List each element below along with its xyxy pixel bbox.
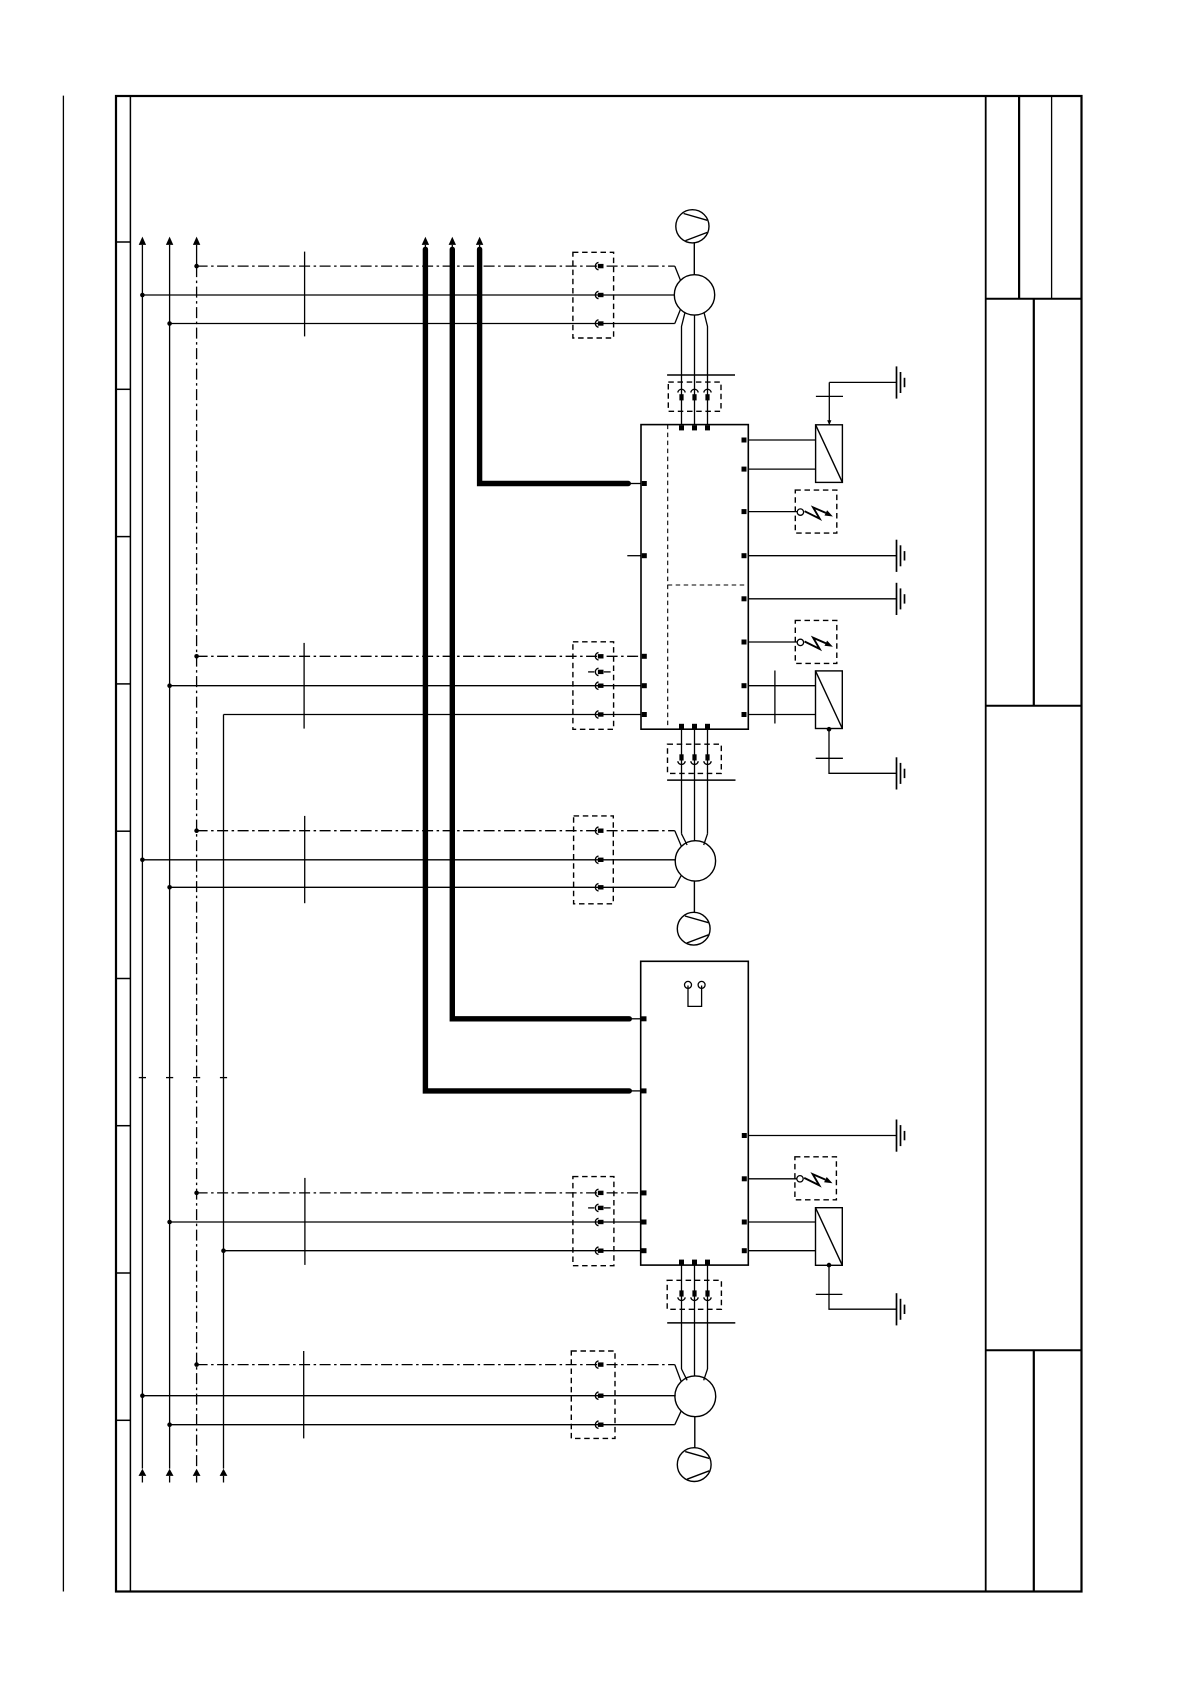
bus line L1 (139, 237, 147, 1483)
terminal X4:1 (678, 754, 685, 764)
ground PE2 (897, 540, 905, 572)
junction bus L2 (167, 1422, 172, 1427)
terminal X6:1 (595, 1189, 603, 1196)
drive A1 pins: bottom U V W (679, 724, 710, 729)
junction control bus to X6 (194, 1191, 199, 1196)
filter Z2 (816, 671, 843, 729)
wire bus L2 to drive A2 (170, 1221, 641, 1223)
terminal X1:3 (595, 320, 603, 327)
terminal X3:2 (stub) (588, 668, 611, 675)
wire (dash-dot) control bus to drive A1 (197, 655, 641, 657)
wire bus L1 to motor M2 (142, 859, 676, 861)
ground lead of filter Z1 with arrow (816, 382, 897, 425)
wire drive A1 to surge arrester F11 (748, 511, 797, 513)
terminal block X2 (dashed, motor side of A1) (668, 382, 721, 411)
wire drive A1 to resistor unit Z2 (top) (748, 685, 815, 687)
junction control bus to X8 (194, 1362, 199, 1367)
drive A1 internal section (dashed) (668, 425, 749, 730)
wire (dash-dot) control to motor M2 (197, 831, 682, 847)
terminal X1:1 (595, 262, 603, 269)
wire PE bus to drive A2 (224, 1250, 641, 1252)
drive A1 pins: right (742, 438, 747, 718)
motor cable M1 to drive A1 (682, 313, 708, 424)
cable marker tick (304, 1178, 306, 1265)
terminal block X3 (dashed) (573, 642, 614, 730)
terminal X7:2 (691, 1290, 698, 1300)
terminal X6:2 (stub) (588, 1204, 611, 1211)
cable screen bond (motor M3 cable) (667, 1322, 735, 1324)
ground lead of filter Z2 (816, 729, 897, 773)
terminal X4:3 (704, 754, 711, 764)
wire motor M3 to fan B3 (694, 1417, 696, 1448)
wire drive A1 to filter Z1 (top) (748, 439, 816, 441)
terminal X2:1 (678, 389, 685, 400)
fan B3 (677, 1448, 711, 1482)
bus line L2 (166, 237, 174, 1483)
drive A2 pins: bottom U V W (679, 1260, 710, 1265)
drive A2 (frequency converter) (641, 961, 749, 1265)
wire PE bus corner to drive A1 (224, 714, 642, 716)
ground PE5 (897, 1120, 905, 1152)
junction on bus L1 (140, 293, 145, 298)
terminal X3:3 (595, 682, 603, 689)
terminal X7:1 (678, 1290, 685, 1300)
wire bus L2 to drive A1 (170, 685, 641, 687)
cable marker tick (304, 816, 306, 903)
wire drive A1 to ground PE2 (748, 555, 896, 557)
terminal block X4 (dashed, below A1) (668, 744, 722, 773)
FRAME (decorative) (63, 96, 1081, 1592)
terminal X7:3 (704, 1290, 711, 1300)
terminal X3:4 (595, 711, 603, 718)
terminal X3:1 (595, 653, 603, 660)
terminal X2:3 (704, 389, 711, 400)
wire drive A1 to ground PE3 (748, 598, 896, 600)
wire (dash-dot) control to motor M1 (197, 266, 681, 280)
cable screen bond (motor M1 cable) (667, 374, 735, 376)
wire bus L1 to motor M1 (142, 294, 675, 296)
terminal X4:2 (691, 754, 698, 764)
wire drive A1 to filter Z1 (bottom) (748, 468, 816, 470)
junction bus L2 to X3 (167, 683, 172, 688)
drive A1 pins: left (642, 481, 647, 717)
DC-link jumper terminals in drive A2 (685, 981, 706, 1006)
drive A2 pins: right (742, 1133, 747, 1253)
surge arrester F21 (795, 1157, 837, 1200)
wire: mains thick cable 3 to drive A1 (476, 237, 641, 484)
fan B1 (676, 210, 709, 243)
wire: mains thick cable 1 to drive A2 (422, 237, 641, 1091)
wire drive A1 to surge arrester F12 (748, 641, 797, 643)
ground PE3 (897, 583, 905, 615)
terminal X2:2 (691, 389, 698, 400)
ground PE1 (897, 366, 905, 398)
terminal X8:2 (595, 1392, 603, 1399)
junction bus L1 (140, 1393, 145, 1398)
terminal X6:4 (595, 1247, 603, 1254)
terminal X5:2 (595, 856, 603, 863)
junction PE bus to X6 (221, 1248, 226, 1253)
wire drive A2 to filter Z3 (top) (748, 1221, 815, 1223)
control bus (dash-dot) (193, 237, 201, 1483)
terminal block X6 (dashed) (573, 1177, 614, 1266)
surge arrester F11 (795, 490, 837, 533)
motor M3 (675, 1376, 716, 1417)
motor M1 (674, 275, 714, 315)
junction on bus L2 (167, 321, 172, 326)
junction control bus to X3 (194, 654, 199, 659)
terminal X8:1 (595, 1361, 603, 1368)
terminal X5:3 (595, 884, 603, 891)
ground lead of filter Z3 (816, 1265, 897, 1309)
terminal block X7 (dashed, below A2) (667, 1280, 721, 1309)
wire bus L2 to motor M3 (170, 1411, 682, 1425)
junction on control bus, node at wire to X1 (194, 264, 199, 269)
wire: mains thick cable 2 to drive A2 (449, 237, 641, 1019)
drive A1 pins: top U V W (679, 425, 710, 430)
terminal X1:2 (595, 291, 603, 298)
wire bus L2 to motor M1 (170, 309, 681, 323)
junction bus L2 to X6 (167, 1220, 172, 1225)
junction at Z2 ground lead (827, 727, 832, 732)
wire (dash-dot) control bus to drive A2 (197, 1192, 641, 1194)
stub terminal on drive A1 left (627, 555, 641, 557)
junction control bus to X5 (194, 828, 199, 833)
ground PE4 (897, 757, 905, 789)
filter Z3 (816, 1208, 843, 1266)
filter Z1 (816, 425, 843, 483)
junction at Z3 ground lead (827, 1263, 832, 1268)
terminal block X1 (dashed) (573, 252, 614, 338)
cable marker tick (303, 643, 305, 729)
junction bus L1 (140, 858, 145, 863)
motor cable A2 to M3 (682, 1265, 708, 1380)
wire drive A1 to resistor unit Z2 (bottom) (748, 714, 815, 716)
wire motor M2 to fan B2 (693, 881, 695, 912)
motor M2 (675, 841, 715, 881)
terminal X6:3 (595, 1218, 603, 1225)
wire bus L1 to motor M3 (142, 1395, 675, 1397)
junction bus L2 (167, 885, 172, 890)
ground PE6 (897, 1293, 905, 1325)
PE bus (220, 715, 228, 1483)
terminal block X8 (dashed) (571, 1351, 615, 1438)
drive A2 pins: left (642, 1016, 647, 1253)
wire bus L2 to motor M2 (170, 875, 682, 887)
terminal X5:1 (595, 827, 603, 834)
terminal block X5 (dashed) (574, 816, 614, 904)
wire fan B1 to motor M1 (693, 243, 695, 275)
drive A1 (frequency converter) (641, 425, 748, 730)
fan B2 (677, 912, 710, 945)
wire drive A2 to surge arrester F21 (748, 1178, 797, 1180)
cable screen bond (motor M2 cable) (667, 779, 735, 781)
cable marker tick (304, 252, 306, 337)
wire drive A2 to filter Z3 (bottom) (748, 1250, 815, 1252)
wire drive A2 to ground PE5 (748, 1135, 896, 1137)
cable screen bond (Z2 cable) (774, 671, 776, 724)
motor cable A1 to M2 (682, 729, 708, 845)
surge arrester F12 (795, 620, 837, 663)
wire (dash-dot) control to motor M3 (197, 1365, 682, 1382)
terminal X8:3 (595, 1421, 603, 1428)
cable marker tick (303, 1351, 305, 1438)
